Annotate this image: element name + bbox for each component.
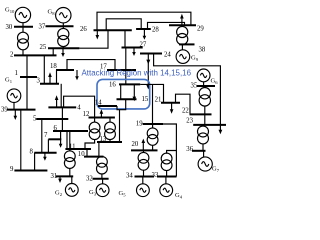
generator G4 [160,177,173,197]
bus 32 [93,178,109,180]
bus 26 [94,29,132,31]
load arrow bus 4 up [55,95,59,107]
bus 10 [84,156,104,158]
transformer 37-25 [58,26,69,48]
wire 2-1 [26,55,28,77]
load arrow bus 23 [219,130,223,134]
bus 21 [161,102,180,104]
bus 19 [143,123,163,125]
wire 21-22 [176,94,191,114]
transformer 20-34 [138,150,149,176]
load arrow bus 18 [75,70,79,80]
bus 17 [107,69,136,71]
wire 25-26 [79,30,108,48]
wire 16-21 [140,84,163,102]
svg-text:26: 26 [80,26,87,33]
transformer 33 [161,151,176,177]
bus 11 [65,148,91,150]
svg-text:27: 27 [140,42,147,49]
wire 26-29 [97,12,191,30]
wire 14-15 [117,99,126,110]
transformer 6-31 [64,131,75,176]
wire 39-9 [20,110,22,171]
wire 5-6 [61,119,63,131]
wire 4-14 [64,96,95,117]
bus 34 [135,176,155,178]
load arrow bus 3 up [48,72,52,84]
svg-text:15: 15 [142,96,149,103]
generator G8 [56,8,71,23]
bus 30 [14,26,33,28]
svg-text:19: 19 [136,121,143,128]
bus 35 [197,85,215,87]
generator G1 [7,89,21,103]
svg-text:2: 2 [10,52,14,59]
wire 13-14 [119,110,121,142]
bus 9 [14,170,47,172]
wire 2-25 [52,48,54,55]
load arrow bus 8 [43,153,47,161]
svg-text:35: 35 [191,82,198,89]
wire 4-5 [61,107,63,119]
load arrow bus 25 [61,48,65,57]
load arrow bus 7 [59,139,63,148]
bus 37 [46,25,74,27]
svg-text:8: 8 [30,149,34,156]
svg-text:24: 24 [164,52,171,59]
svg-text:36: 36 [186,146,193,153]
wire 28-29 [148,22,185,29]
load arrow bus 39 [14,110,18,120]
transformer 12-11 [85,118,100,150]
bus 7 [48,138,61,140]
bus 38 [179,43,195,45]
wire 27-17 [125,48,127,71]
load arrow bus 28 [143,29,147,40]
load arrow bus 20 up [142,139,146,151]
svg-text:38: 38 [199,47,206,54]
generator G2 [65,176,78,196]
wire 2-3 [43,55,45,83]
wire 7-8 [47,139,49,153]
bus 4 [48,106,76,108]
svg-text:3: 3 [37,78,41,85]
wire 24-23 [154,54,221,131]
load arrow bus 29 up [180,14,184,25]
generator G9 [176,44,190,63]
load arrow bus 27 [132,48,136,57]
load arrow bus 31 [58,176,62,183]
svg-text:12: 12 [83,111,90,118]
generator G6 [197,69,210,86]
wire 3-4 [60,84,62,108]
svg-text:31: 31 [51,173,58,180]
svg-text:18: 18 [50,63,57,70]
wire G1 to bus 39 [13,102,15,109]
bus 6 [53,130,88,132]
wire 1-39 [26,77,28,110]
transformer 19-20 [147,124,158,150]
svg-text:33: 33 [152,172,159,179]
svg-text:25: 25 [40,44,47,51]
wire 10-11 [86,149,88,157]
generator G7 [198,151,212,171]
svg-text:13: 13 [100,136,107,143]
wire 18-17 [67,60,115,70]
svg-text:39: 39 [1,107,8,114]
bus 29 [169,24,196,26]
arrow 16 to 15 [133,84,137,101]
generator G10 [15,7,30,22]
bus 14 [98,105,117,107]
bus 2 [14,54,57,56]
bus 25 [48,47,79,49]
wire 19 right [163,124,176,177]
svg-text:14: 14 [95,100,102,107]
svg-text:9: 9 [10,166,14,173]
wire 26-28 [106,19,141,31]
wire 17-16 [125,70,127,84]
svg-text:5: 5 [33,116,37,123]
svg-text:6: 6 [54,125,58,132]
bus 28 [136,28,151,30]
wire 6-11 [66,131,68,149]
svg-text:1: 1 [15,70,18,77]
generator G3 [96,179,109,197]
svg-text:34: 34 [126,173,133,180]
bus 27 [122,47,143,49]
bus 16 [119,83,140,85]
wire 10-13 [98,142,100,157]
bus 15 [117,98,137,100]
wire 5-8 [41,119,43,153]
wire G10 to bus 30 [22,23,24,27]
wire 26-27 [124,30,126,47]
svg-text:23: 23 [186,118,193,125]
bus 24 [140,53,162,55]
bus 23 [193,124,226,126]
transformer 29-38 [177,25,188,45]
svg-text:11: 11 [69,143,76,150]
svg-text:16: 16 [109,82,116,89]
svg-text:22: 22 [182,108,189,115]
svg-text:10: 10 [78,151,85,158]
bus 31 [56,175,74,177]
transformer 23-36 [198,125,209,151]
svg-text:30: 30 [6,24,13,31]
svg-text:29: 29 [197,26,204,33]
generator G5 [137,177,150,197]
svg-text:32: 32 [86,175,93,182]
bus 5 [36,118,68,120]
bus 36 [192,150,206,152]
load arrow bus 26 [96,30,100,39]
arrow 12 to 14 [100,109,104,117]
wire 16-15 [120,84,122,99]
transformer 35-22 [199,86,210,114]
attacking region box [97,79,150,109]
wire 22-23 [204,114,206,125]
transformer 30-2 [18,27,29,56]
bus 13 [97,141,122,143]
svg-text:4: 4 [77,105,81,112]
svg-text:Attacking Region with 14,15,16: Attacking Region with 14,15,16 [82,68,192,78]
wire 3-18 [56,70,58,84]
svg-text:37: 37 [39,24,46,31]
svg-text:20: 20 [132,141,139,148]
bus 33 [157,176,177,178]
wire 16-19 [152,84,154,124]
transformer 10-32 [97,156,108,178]
bus 39 [7,109,36,111]
svg-text:28: 28 [152,27,159,34]
bus 22 [190,113,212,115]
wire 8-9 [34,153,36,171]
wire 6-7 [60,131,62,139]
bus 1 [20,76,37,78]
transformer 12-13 [105,118,116,143]
arrow 24 to 16 [146,54,150,90]
bus 8 [34,152,56,154]
bus 18 [56,69,74,71]
svg-text:21: 21 [155,97,162,104]
svg-text:7: 7 [44,132,48,139]
load arrow bus 21 [170,103,174,114]
wire G8 to bus 37 [62,23,64,26]
bus 3 [40,83,59,85]
bus 12 [89,117,115,119]
bus 20 [131,149,158,151]
